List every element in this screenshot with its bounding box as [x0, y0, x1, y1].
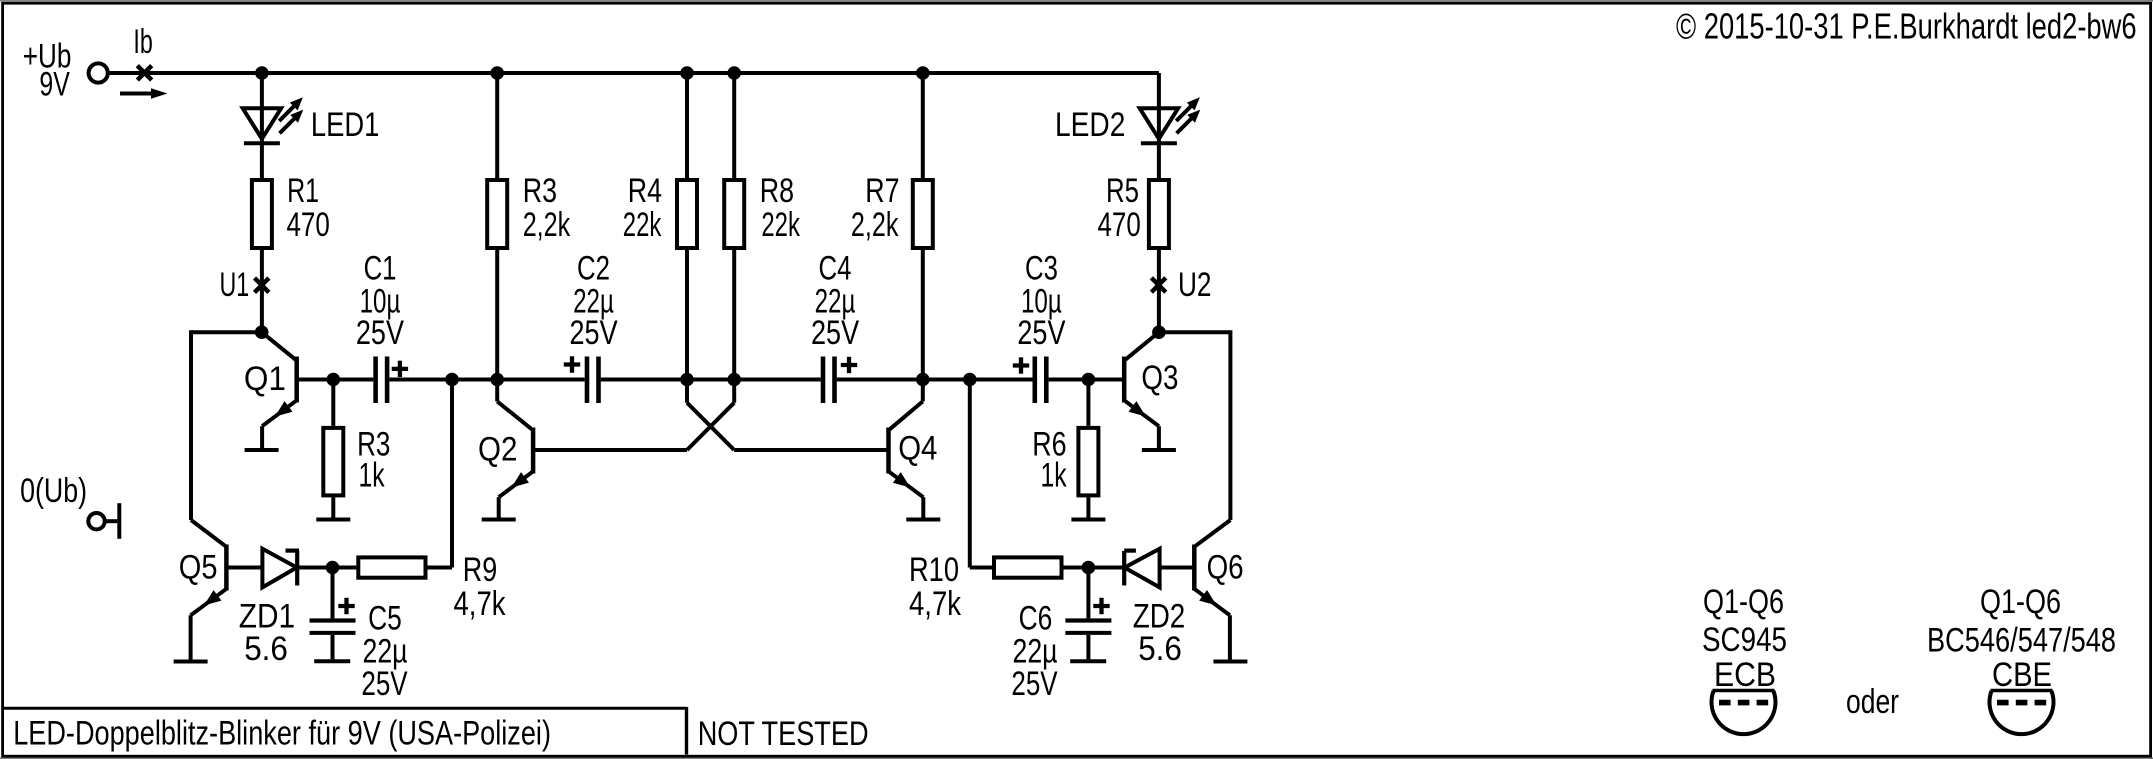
svg-text:25V: 25V	[570, 314, 618, 352]
svg-text:0(Ub): 0(Ub)	[20, 472, 87, 510]
svg-text:R7: R7	[865, 172, 899, 210]
svg-text:4,7k: 4,7k	[454, 585, 507, 623]
svg-text:R8: R8	[760, 172, 794, 210]
svg-text:470: 470	[287, 206, 330, 244]
svg-text:CBE: CBE	[1992, 656, 2052, 694]
svg-text:25V: 25V	[811, 314, 859, 352]
svg-text:9V: 9V	[39, 66, 70, 104]
svg-text:25V: 25V	[356, 314, 404, 352]
svg-text:R1: R1	[287, 172, 319, 210]
svg-text:22k: 22k	[623, 206, 662, 244]
svg-text:oder: oder	[1846, 683, 1899, 721]
svg-text:470: 470	[1098, 206, 1141, 244]
svg-text:R9: R9	[463, 551, 498, 589]
svg-text:5.6: 5.6	[1138, 630, 1182, 668]
svg-text:Q1-Q6: Q1-Q6	[1703, 583, 1784, 621]
svg-text:Q4: Q4	[898, 430, 937, 468]
svg-text:Q1: Q1	[244, 360, 286, 398]
svg-text:NOT TESTED: NOT TESTED	[698, 715, 869, 753]
svg-text:Q5: Q5	[179, 548, 218, 586]
svg-text:LED-Doppelblitz-Blinker für 9V: LED-Doppelblitz-Blinker für 9V (USA-Poli…	[13, 715, 551, 753]
svg-text:Q6: Q6	[1207, 549, 1244, 587]
svg-text:1k: 1k	[1041, 457, 1068, 495]
svg-text:LED2: LED2	[1055, 106, 1125, 144]
svg-text:ECB: ECB	[1714, 656, 1776, 694]
svg-text:2,2k: 2,2k	[523, 206, 571, 244]
svg-text:25V: 25V	[1017, 314, 1065, 352]
svg-text:R10: R10	[909, 551, 959, 589]
svg-text:Q3: Q3	[1141, 359, 1178, 397]
svg-text:Q2: Q2	[478, 430, 517, 468]
svg-text:2,2k: 2,2k	[851, 206, 899, 244]
svg-text:25V: 25V	[361, 665, 407, 703]
svg-text:22k: 22k	[761, 206, 800, 244]
svg-text:U1: U1	[220, 266, 250, 304]
svg-text:1k: 1k	[359, 457, 386, 495]
svg-text:25V: 25V	[1011, 665, 1057, 703]
svg-text:R3: R3	[523, 172, 557, 210]
svg-text:Ib: Ib	[133, 23, 152, 61]
svg-text:LED1: LED1	[311, 106, 379, 144]
svg-text:U2: U2	[1178, 266, 1212, 304]
svg-text:Q1-Q6: Q1-Q6	[1980, 583, 2061, 621]
svg-text:BC546/547/548: BC546/547/548	[1927, 622, 2116, 660]
svg-text:R4: R4	[628, 172, 662, 210]
svg-text:R5: R5	[1106, 172, 1139, 210]
svg-text:5.6: 5.6	[244, 630, 288, 668]
svg-text:SC945: SC945	[1702, 621, 1787, 659]
svg-text:4,7k: 4,7k	[909, 585, 962, 623]
svg-text:© 2015-10-31 P.E.Burkhardt led: © 2015-10-31 P.E.Burkhardt led2-bw6	[1676, 6, 2137, 47]
